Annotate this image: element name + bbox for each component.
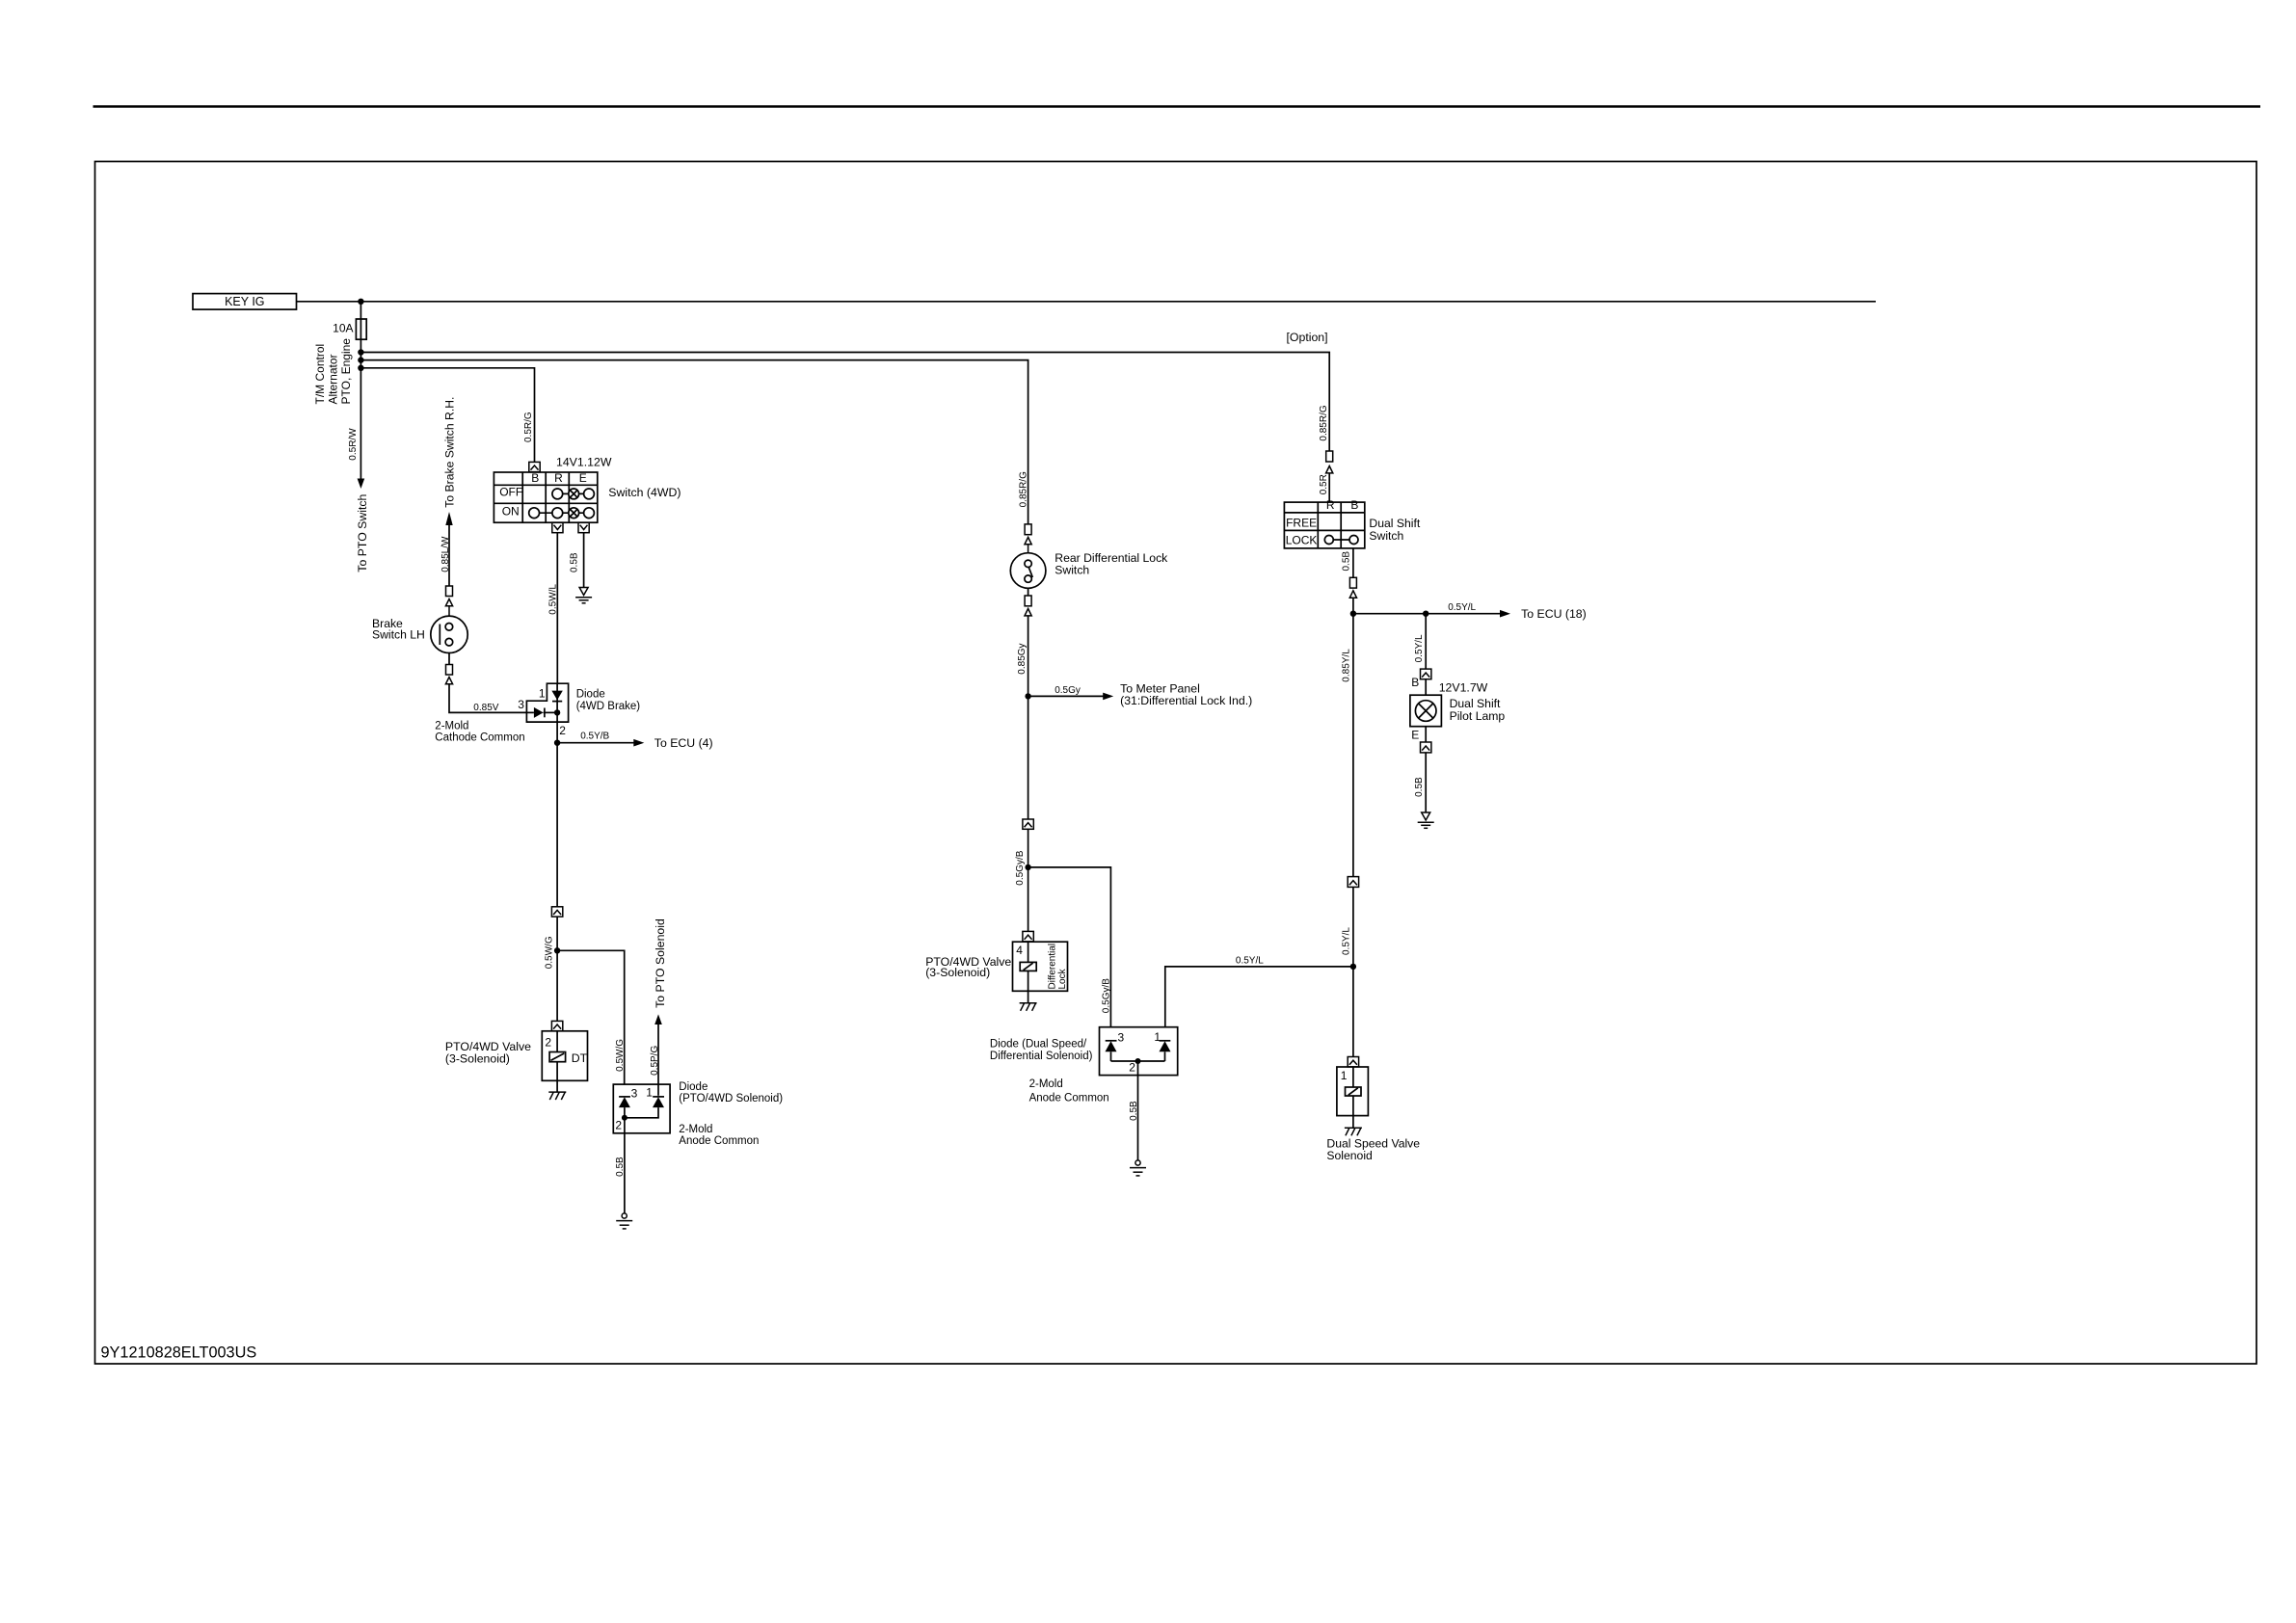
svg-text:Differential: Differential xyxy=(1047,944,1057,990)
svg-text:[Option]: [Option] xyxy=(1287,331,1328,344)
connector pair above dual shift switch xyxy=(1326,451,1333,502)
label PTO/4WD Valve (3-Solenoid) left xyxy=(445,1040,531,1065)
diode D2 (PTO/4WD Solenoid) 2-mold anode common xyxy=(613,1084,670,1133)
svg-text:0.5R/W: 0.5R/W xyxy=(348,428,359,461)
svg-text:2: 2 xyxy=(615,1119,622,1132)
ground E pin xyxy=(575,588,592,603)
junction for 0.5Y/B branch xyxy=(554,740,560,746)
wire 0.5Y/L to ECU(18) xyxy=(1353,602,1587,621)
junction dual shift to ECU 18 xyxy=(1350,611,1356,617)
svg-text:Switch (4WD): Switch (4WD) xyxy=(608,486,681,499)
dual shift pilot lamp xyxy=(1410,695,1442,727)
wire to 0.5Gy/B junction xyxy=(1028,829,1029,931)
wire dual shift B down xyxy=(1352,548,1354,577)
wire KEY IG bus xyxy=(297,301,1877,303)
svg-text:4: 4 xyxy=(1016,944,1023,957)
arrow To PTO Switch xyxy=(358,479,365,490)
connector on 0.85Y/L wire xyxy=(1348,877,1358,888)
connector pair below brake switch xyxy=(445,653,452,684)
svg-text:Anode Common: Anode Common xyxy=(679,1135,759,1147)
label 2-Mold Anode Common middle xyxy=(1029,1078,1109,1104)
svg-text:B: B xyxy=(1350,498,1358,512)
wire line B to rear differential lock branch xyxy=(360,360,1028,524)
junction to meter panel xyxy=(1025,693,1030,699)
svg-text:To ECU (4): To ECU (4) xyxy=(654,736,713,750)
svg-text:0.85V: 0.85V xyxy=(473,703,498,713)
label T/M Control Alternator PTO, Engine xyxy=(313,338,353,405)
svg-text:2-Mold: 2-Mold xyxy=(679,1124,712,1135)
connector above differential lock valve xyxy=(1023,931,1033,942)
svg-text:2: 2 xyxy=(559,724,566,737)
connector above pilot lamp xyxy=(1421,669,1431,695)
label To Meter Panel (31:Differential Lock Ind.) xyxy=(1120,682,1252,708)
junction 0.5Gy/B split xyxy=(1025,865,1030,870)
svg-text:0.5Y/L: 0.5Y/L xyxy=(1414,634,1425,662)
svg-text:(3-Solenoid): (3-Solenoid) xyxy=(925,966,990,979)
earth ground under diode D3 xyxy=(1130,1160,1146,1176)
svg-text:Switch LH: Switch LH xyxy=(372,628,425,642)
svg-text:Cathode Common: Cathode Common xyxy=(435,732,524,744)
svg-text:0.5Gy/B: 0.5Gy/B xyxy=(1102,978,1112,1013)
svg-text:2-Mold: 2-Mold xyxy=(1029,1078,1063,1090)
svg-text:0.5B: 0.5B xyxy=(1341,551,1351,572)
dual shift switch S2 xyxy=(1284,498,1364,548)
label Diode (PTO/4WD Solenoid) xyxy=(679,1081,783,1104)
svg-text:2: 2 xyxy=(545,1035,551,1049)
PTO/4WD valve DT solenoid xyxy=(542,1031,587,1092)
ground pilot lamp xyxy=(1418,812,1434,828)
svg-text:0.5R/G: 0.5R/G xyxy=(523,412,534,442)
svg-text:Switch: Switch xyxy=(1055,563,1089,576)
svg-text:0.5Gy/B: 0.5Gy/B xyxy=(1015,850,1026,885)
label Diode (Dual Speed/ Differential Solenoid) xyxy=(990,1039,1093,1062)
connector on 0.5W/G wire xyxy=(551,907,562,917)
svg-text:Lock: Lock xyxy=(1057,968,1068,989)
svg-text:To PTO Solenoid: To PTO Solenoid xyxy=(654,918,667,1008)
svg-text:(PTO/4WD Solenoid): (PTO/4WD Solenoid) xyxy=(679,1093,783,1104)
svg-text:(31:Differential Lock Ind.): (31:Differential Lock Ind.) xyxy=(1120,694,1252,707)
fuse F 10A xyxy=(333,319,366,339)
svg-text:To PTO Switch: To PTO Switch xyxy=(356,493,369,572)
wire 0.5B from diode D3 to ground xyxy=(1137,1061,1139,1160)
svg-text:0.5B: 0.5B xyxy=(1129,1101,1139,1121)
svg-text:To Brake Switch R.H.: To Brake Switch R.H. xyxy=(443,397,457,508)
svg-text:0.85Y/L: 0.85Y/L xyxy=(1341,649,1351,682)
junction pilot lamp branch xyxy=(1423,611,1428,617)
svg-text:(4WD Brake): (4WD Brake) xyxy=(576,701,641,712)
svg-text:0.5W/L: 0.5W/L xyxy=(548,584,559,615)
wire brake switch to diode pin 3 xyxy=(449,684,526,713)
wire branch to PTO/4WD solenoid diode xyxy=(557,950,625,1083)
svg-text:DT: DT xyxy=(572,1051,588,1065)
wire 0.5Gy to meter panel xyxy=(1028,685,1114,700)
diode D3 (Dual Speed/Differential Solenoid) 2-mold anode common xyxy=(1100,1027,1178,1076)
wire 4WD switch E to ground xyxy=(583,533,585,588)
arrow To Brake Switch R.H. xyxy=(443,397,457,586)
wire pilot lamp branch down xyxy=(1425,614,1427,669)
svg-text:0.5Y/L: 0.5Y/L xyxy=(1236,955,1264,966)
connector above 4WD switch xyxy=(529,462,540,471)
svg-text:3: 3 xyxy=(631,1086,638,1100)
brake switch LH xyxy=(372,606,467,653)
node KEY IG xyxy=(193,294,297,310)
svg-text:0.85L/W: 0.85L/W xyxy=(441,536,451,572)
svg-text:B: B xyxy=(1411,676,1419,689)
switch (4WD) S1 xyxy=(494,471,597,522)
svg-text:0.5W/G: 0.5W/G xyxy=(545,936,555,969)
junction dot B xyxy=(358,357,363,362)
svg-text:Pilot Lamp: Pilot Lamp xyxy=(1450,709,1506,723)
chassis ground under dual speed valve xyxy=(1345,1128,1362,1135)
wire pilot lamp to ground xyxy=(1425,753,1427,813)
connector pair above rear differential lock switch xyxy=(1025,524,1031,545)
svg-text:Diode: Diode xyxy=(576,688,605,700)
wire branch to dual speed diode pin 1 xyxy=(1165,967,1353,1027)
earth ground under diode D2 xyxy=(616,1213,632,1229)
dual speed valve solenoid xyxy=(1337,1067,1369,1128)
chassis ground under differential lock valve xyxy=(1020,1003,1037,1011)
label Dual Speed Valve Solenoid xyxy=(1326,1136,1420,1162)
svg-text:Dual Shift: Dual Shift xyxy=(1369,517,1420,530)
connector above PTO/4WD valve DT xyxy=(551,1021,562,1030)
junction at fuse tap xyxy=(358,299,363,305)
svg-text:0.85R/G: 0.85R/G xyxy=(1019,471,1029,507)
wire 0.85Y/L main down xyxy=(1352,614,1354,877)
connector below 4WD switch pin R xyxy=(552,522,563,533)
svg-text:LOCK: LOCK xyxy=(1286,534,1318,547)
svg-text:T/M Control: T/M Control xyxy=(313,344,327,405)
svg-text:Switch: Switch xyxy=(1369,529,1403,543)
svg-text:Dual Shift: Dual Shift xyxy=(1450,697,1501,710)
svg-text:Diode: Diode xyxy=(679,1081,707,1093)
svg-text:0.5B: 0.5B xyxy=(615,1157,626,1177)
connector pair below rear differential lock switch xyxy=(1025,588,1031,616)
connector on 0.85Gy wire xyxy=(1023,819,1033,829)
wire 0.5B from diode to ground xyxy=(624,1118,626,1213)
svg-text:0.5B: 0.5B xyxy=(1414,777,1425,797)
rear differential lock switch xyxy=(1010,545,1046,589)
svg-text:12V1.7W: 12V1.7W xyxy=(1439,681,1488,695)
wire fuse output down to PTO arrow xyxy=(360,339,361,479)
svg-text:0.5B: 0.5B xyxy=(570,552,580,572)
wire from KEY IG to fuse xyxy=(360,302,361,319)
svg-text:E: E xyxy=(579,471,587,485)
svg-text:0.5W/G: 0.5W/G xyxy=(615,1039,626,1072)
svg-text:Differential Solenoid): Differential Solenoid) xyxy=(990,1051,1093,1062)
svg-text:1: 1 xyxy=(1154,1030,1161,1044)
junction 0.5Y/L split xyxy=(1350,964,1356,970)
svg-text:(3-Solenoid): (3-Solenoid) xyxy=(445,1051,510,1065)
wire line A to dual shift option branch xyxy=(360,353,1329,452)
svg-text:3: 3 xyxy=(518,698,524,711)
connector pair above brake switch xyxy=(445,586,452,606)
junction 0.5W/G split xyxy=(554,947,560,953)
connector below 4WD switch pin E xyxy=(578,522,589,533)
top rule xyxy=(93,105,2261,108)
wire branch to dual speed diode pin 3 xyxy=(1028,867,1111,1027)
connector pair below dual shift switch xyxy=(1349,577,1356,613)
svg-text:2: 2 xyxy=(1129,1061,1135,1075)
svg-text:B: B xyxy=(531,471,539,485)
svg-text:0.5Y/B: 0.5Y/B xyxy=(580,732,609,742)
svg-text:FREE: FREE xyxy=(1286,517,1317,530)
label 2-Mold Anode Common xyxy=(679,1124,759,1147)
svg-text:0.5Y/L: 0.5Y/L xyxy=(1448,602,1476,613)
border frame of schematic xyxy=(95,162,2257,1365)
svg-text:E: E xyxy=(1411,729,1419,742)
svg-text:R: R xyxy=(1326,498,1335,512)
svg-text:KEY IG: KEY IG xyxy=(225,295,264,308)
wire rear diff lock down to meter junction xyxy=(1028,616,1029,819)
junction dot C xyxy=(358,365,363,371)
svg-text:0.5Y/L: 0.5Y/L xyxy=(1341,927,1351,955)
wire line C to 4WD switch xyxy=(360,368,534,463)
svg-text:0.5R: 0.5R xyxy=(1319,474,1329,494)
diode D1 (4WD Brake) 2-mold cathode common xyxy=(518,683,568,743)
svg-text:0.85Gy: 0.85Gy xyxy=(1017,643,1028,674)
svg-text:Solenoid: Solenoid xyxy=(1326,1149,1372,1162)
label Dual Shift Pilot Lamp xyxy=(1450,697,1506,723)
svg-text:10A: 10A xyxy=(333,321,353,334)
svg-text:0.85R/G: 0.85R/G xyxy=(1319,405,1329,440)
svg-text:ON: ON xyxy=(502,504,520,518)
svg-text:Alternator: Alternator xyxy=(327,354,340,404)
junction dot A xyxy=(358,349,363,355)
label Diode (4WD Brake) xyxy=(576,688,641,712)
svg-text:0.5Gy: 0.5Gy xyxy=(1055,685,1081,696)
svg-text:PTO, Engine: PTO, Engine xyxy=(339,338,353,405)
svg-text:2-Mold: 2-Mold xyxy=(435,721,468,732)
svg-text:To ECU (18): To ECU (18) xyxy=(1521,607,1587,621)
svg-text:1: 1 xyxy=(539,687,546,701)
PTO/4WD valve differential lock solenoid xyxy=(1013,942,1068,1003)
wire to 0.5Y/L junction xyxy=(1352,887,1354,1056)
label 2-Mold Cathode Common xyxy=(435,721,524,744)
svg-text:14V1.12W: 14V1.12W xyxy=(556,456,612,469)
svg-text:1: 1 xyxy=(1341,1069,1348,1082)
svg-text:9Y1210828ELT003US: 9Y1210828ELT003US xyxy=(101,1344,257,1362)
chassis ground under DT valve xyxy=(548,1092,566,1100)
connector above dual speed valve xyxy=(1348,1057,1358,1067)
label Dual Shift Switch xyxy=(1369,517,1420,543)
svg-text:Diode (Dual Speed/: Diode (Dual Speed/ xyxy=(990,1039,1087,1051)
wire 0.5Y/B to ECU(4) xyxy=(557,732,713,751)
svg-text:3: 3 xyxy=(1118,1031,1125,1045)
wire to PTO valve and junction xyxy=(556,917,558,1021)
connector below pilot lamp xyxy=(1421,727,1431,753)
wire 0.5P/G up with arrow To PTO Solenoid xyxy=(650,918,667,1096)
svg-text:1: 1 xyxy=(646,1085,653,1099)
label Rear Differential Lock Switch xyxy=(1055,551,1168,576)
svg-text:0.5P/G: 0.5P/G xyxy=(650,1046,660,1076)
svg-text:Anode Common: Anode Common xyxy=(1029,1092,1109,1104)
svg-text:OFF: OFF xyxy=(499,486,522,499)
label PTO/4WD Valve (3-Solenoid) middle xyxy=(925,955,1011,979)
wire 4WD switch R to diode box xyxy=(556,533,558,684)
wire 0.5W/G down from diode xyxy=(556,743,558,907)
svg-text:R: R xyxy=(554,471,563,485)
